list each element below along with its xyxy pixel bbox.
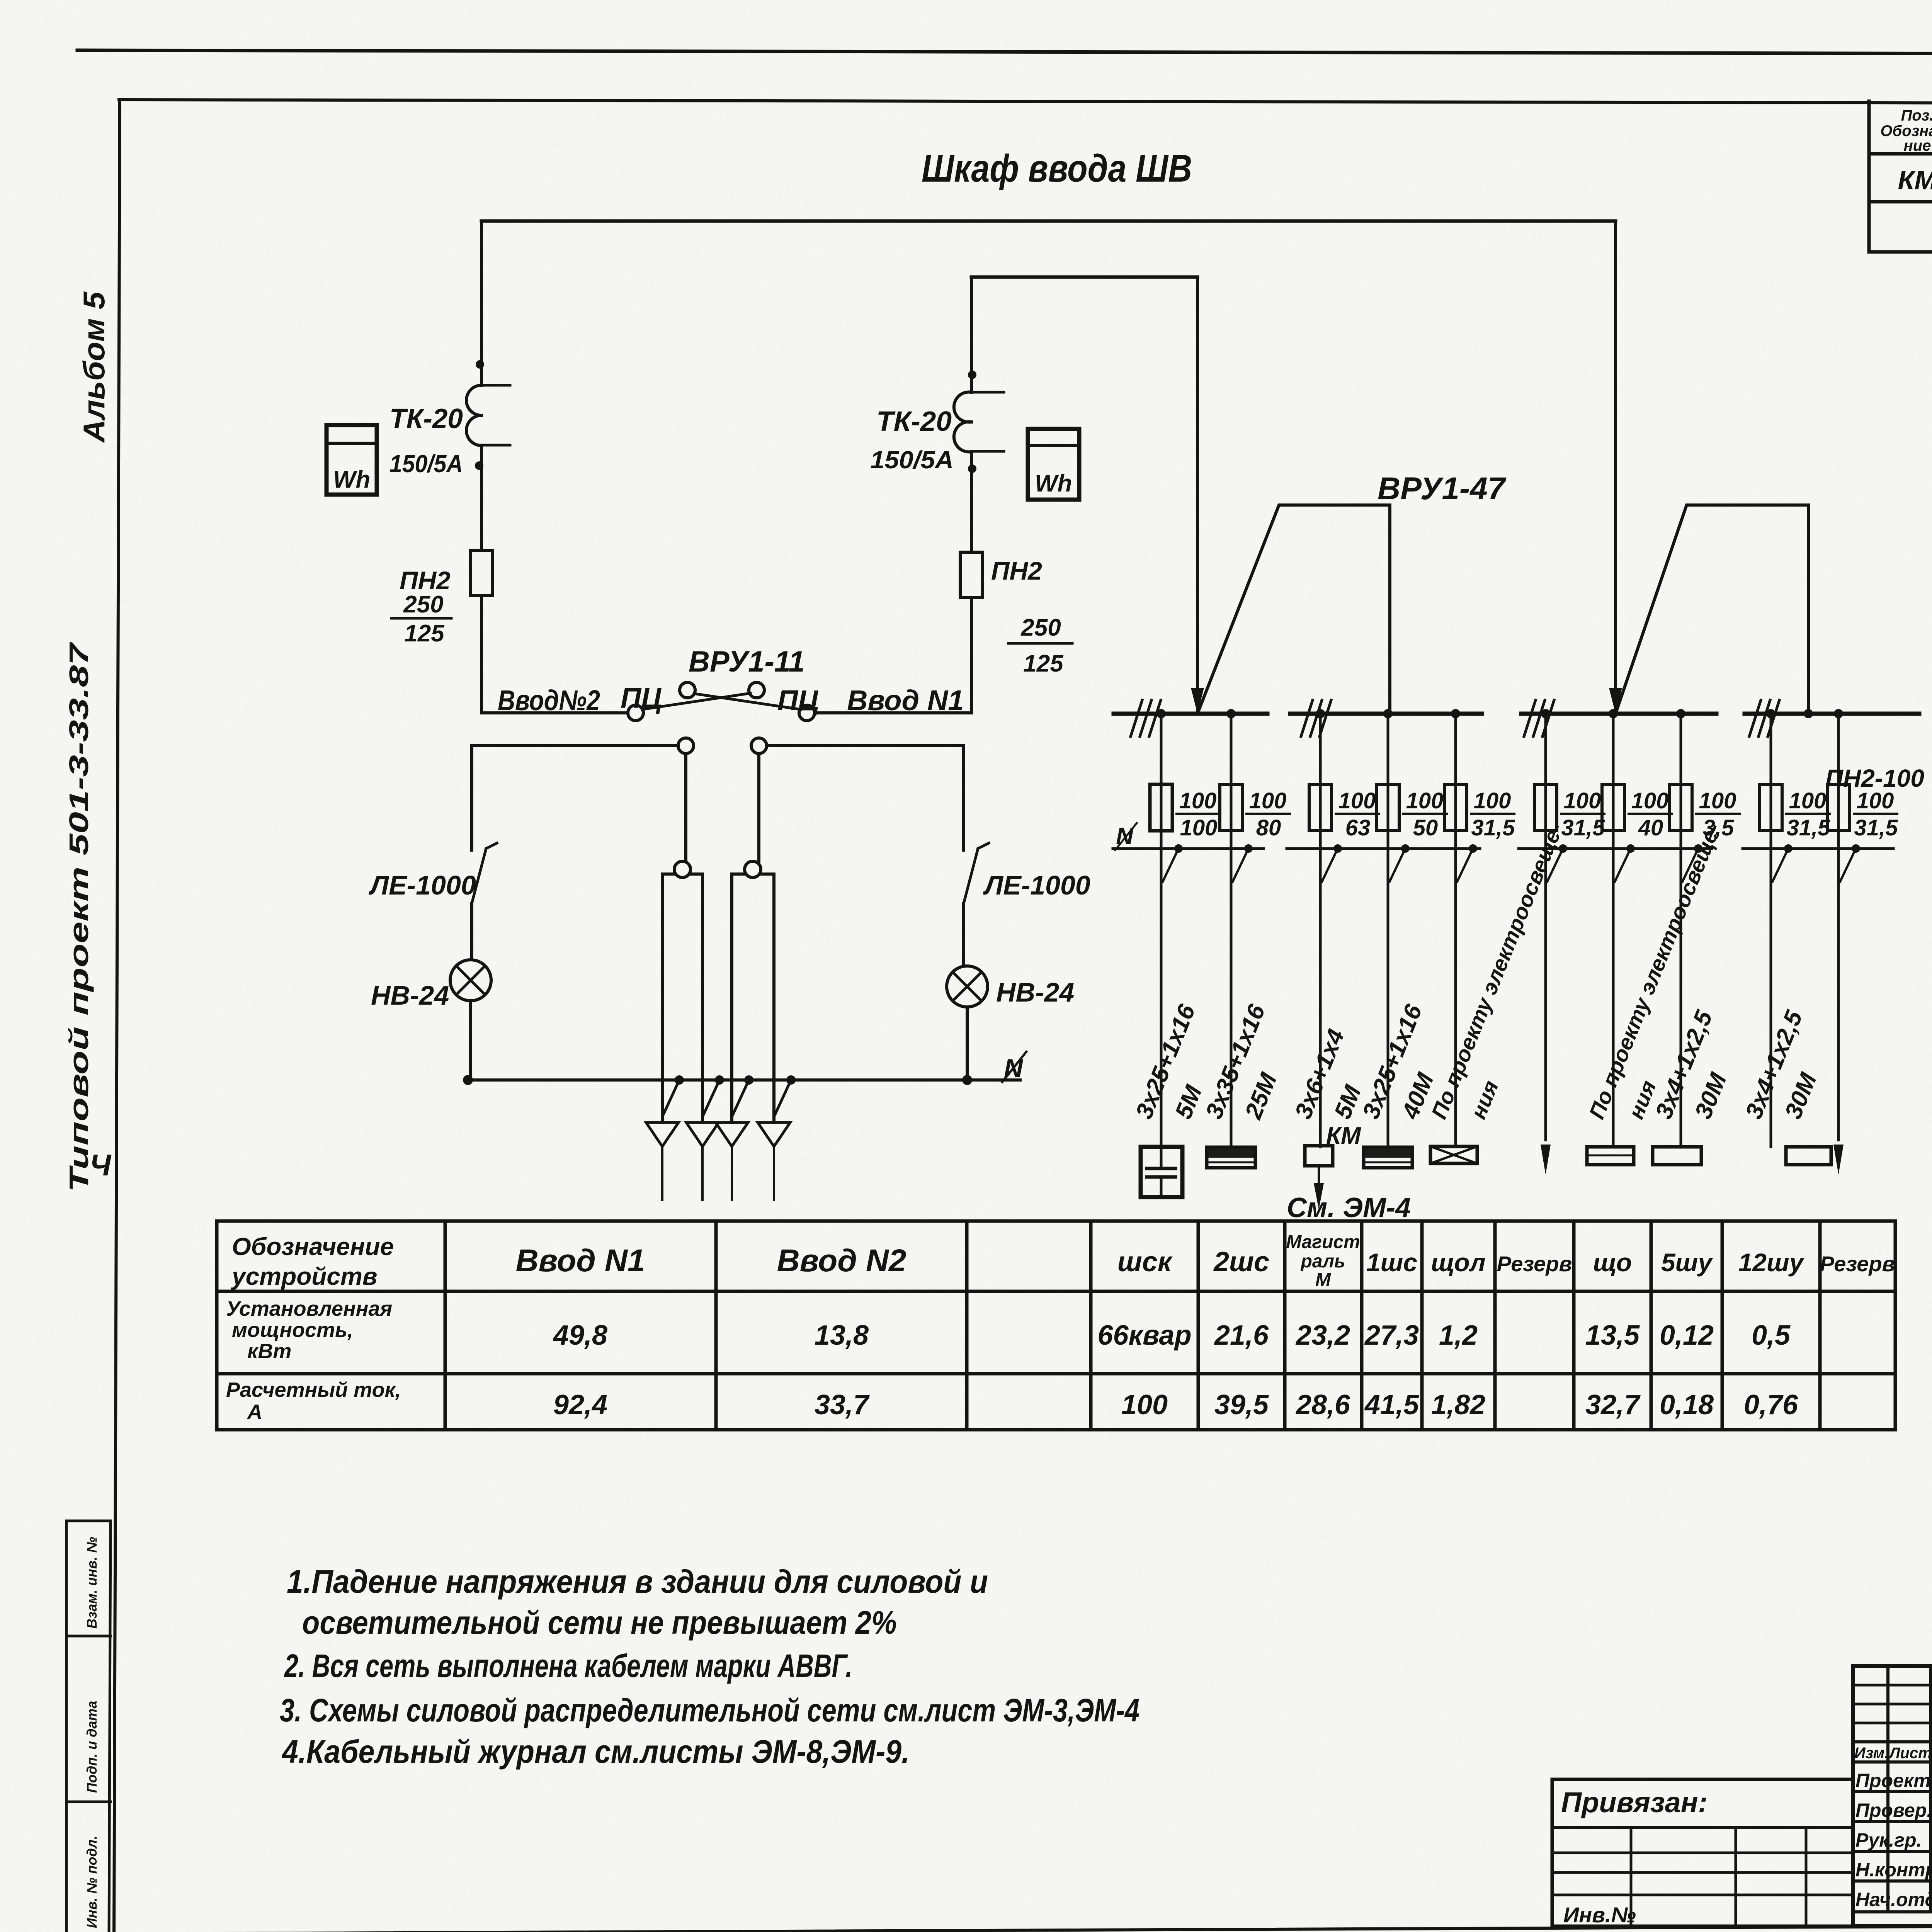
svg-text:Типовой проект 501-3-33.87: Типовой проект 501-3-33.87 bbox=[64, 642, 94, 1192]
svg-text:Альбом 5: Альбом 5 bbox=[77, 291, 111, 443]
svg-text:ВРУ1-11: ВРУ1-11 bbox=[689, 645, 805, 678]
svg-text:27,3: 27,3 bbox=[1364, 1320, 1419, 1351]
svg-text:Провер.: Провер. bbox=[1855, 1799, 1932, 1821]
svg-text:31,5: 31,5 bbox=[1561, 815, 1605, 840]
svg-text:ТК-20: ТК-20 bbox=[389, 403, 463, 434]
svg-text:31,5: 31,5 bbox=[1471, 815, 1515, 840]
svg-text:Привязан:: Привязан: bbox=[1561, 1786, 1708, 1818]
svg-text:Wh: Wh bbox=[333, 466, 370, 493]
svg-text:НВ-24: НВ-24 bbox=[371, 980, 449, 1010]
svg-text:39,5: 39,5 bbox=[1214, 1389, 1269, 1420]
svg-text:ВРУ1-47: ВРУ1-47 bbox=[1378, 471, 1507, 506]
svg-text:100: 100 bbox=[1338, 788, 1376, 813]
svg-text:125: 125 bbox=[404, 620, 445, 647]
svg-text:А: А bbox=[247, 1400, 262, 1423]
svg-text:що: що bbox=[1593, 1248, 1632, 1277]
svg-text:кВт: кВт bbox=[247, 1340, 291, 1363]
svg-text:2. Вся сеть выполнена кабелем: 2. Вся сеть выполнена кабелем марки АВВГ… bbox=[284, 1648, 852, 1684]
svg-text:31,5: 31,5 bbox=[1854, 815, 1898, 840]
svg-text:Резерв: Резерв bbox=[1497, 1252, 1572, 1276]
svg-text:100: 100 bbox=[1699, 788, 1736, 813]
svg-text:100: 100 bbox=[1249, 788, 1287, 813]
svg-text:21,6: 21,6 bbox=[1214, 1320, 1269, 1351]
svg-text:Расчетный ток,: Расчетный ток, bbox=[226, 1378, 401, 1401]
svg-text:5шу: 5шу bbox=[1661, 1248, 1713, 1277]
svg-text:250: 250 bbox=[403, 591, 443, 618]
svg-text:Wh: Wh bbox=[1035, 470, 1072, 497]
svg-text:31,5: 31,5 bbox=[1787, 815, 1831, 840]
svg-text:0,12: 0,12 bbox=[1660, 1320, 1714, 1351]
svg-text:ТК-20: ТК-20 bbox=[876, 406, 952, 437]
svg-text:Рук.гр.: Рук.гр. bbox=[1855, 1829, 1922, 1851]
svg-text:Ввод N2: Ввод N2 bbox=[777, 1243, 906, 1278]
svg-text:100: 100 bbox=[1121, 1389, 1168, 1420]
svg-text:4.Кабельный журнал см.листы Э: 4.Кабельный журнал см.листы ЭМ-8,ЭМ-9. bbox=[281, 1733, 910, 1770]
svg-text:33,7: 33,7 bbox=[815, 1389, 870, 1420]
svg-text:0,5: 0,5 bbox=[1752, 1320, 1791, 1351]
svg-text:Инв. № подл.: Инв. № подл. bbox=[84, 1836, 100, 1928]
svg-text:150/5А: 150/5А bbox=[870, 446, 954, 474]
svg-text:13,5: 13,5 bbox=[1585, 1320, 1640, 1351]
svg-text:100: 100 bbox=[1179, 788, 1217, 813]
svg-text:100: 100 bbox=[1474, 788, 1511, 813]
svg-text:3. Схемы силовой распределител: 3. Схемы силовой распределительной сети … bbox=[280, 1692, 1139, 1728]
svg-text:100: 100 bbox=[1406, 788, 1444, 813]
svg-text:Н.контр.: Н.контр. bbox=[1855, 1859, 1932, 1881]
svg-text:щол: щол bbox=[1431, 1248, 1485, 1277]
svg-text:Поз.: Поз. bbox=[1901, 107, 1932, 124]
svg-text:ЛЕ-1000: ЛЕ-1000 bbox=[983, 870, 1090, 900]
svg-text:100: 100 bbox=[1631, 788, 1669, 813]
svg-text:66квар: 66квар bbox=[1097, 1320, 1191, 1351]
svg-text:Проект.: Проект. bbox=[1855, 1770, 1932, 1791]
svg-text:49,8: 49,8 bbox=[553, 1320, 607, 1351]
svg-text:КМ: КМ bbox=[1898, 165, 1932, 195]
svg-text:шск: шск bbox=[1117, 1247, 1173, 1277]
svg-text:100: 100 bbox=[1180, 815, 1218, 840]
svg-text:Инв.№: Инв.№ bbox=[1563, 1903, 1636, 1927]
svg-text:50: 50 bbox=[1413, 815, 1438, 840]
svg-text:32,7: 32,7 bbox=[1585, 1389, 1641, 1420]
svg-text:0,18: 0,18 bbox=[1660, 1389, 1714, 1420]
svg-text:Резерв: Резерв bbox=[1820, 1252, 1895, 1276]
svg-text:ние: ние bbox=[1904, 137, 1931, 154]
svg-text:ПН2: ПН2 bbox=[991, 556, 1042, 585]
svg-text:92,4: 92,4 bbox=[553, 1389, 607, 1420]
svg-text:125: 125 bbox=[1023, 650, 1064, 677]
svg-text:250: 250 bbox=[1020, 614, 1061, 641]
svg-text:осветительной сети не превышае: осветительной сети не превышает 2% bbox=[302, 1604, 897, 1641]
svg-text:12шу: 12шу bbox=[1738, 1248, 1805, 1277]
svg-text:13,8: 13,8 bbox=[815, 1320, 869, 1351]
svg-text:Магист: Магист bbox=[1286, 1232, 1360, 1252]
svg-text:Взам. инв. №: Взам. инв. № bbox=[84, 1537, 100, 1629]
svg-text:Лист: Лист bbox=[1888, 1745, 1932, 1762]
svg-text:100: 100 bbox=[1564, 788, 1601, 813]
svg-text:Установленная: Установленная bbox=[226, 1297, 392, 1320]
svg-text:40: 40 bbox=[1638, 815, 1663, 840]
svg-text:1,82: 1,82 bbox=[1431, 1389, 1485, 1420]
svg-text:Обозначение: Обозначение bbox=[232, 1233, 394, 1260]
svg-text:КМ: КМ bbox=[1326, 1122, 1361, 1149]
svg-text:Нач.отд.: Нач.отд. bbox=[1855, 1889, 1932, 1910]
svg-text:раль: раль bbox=[1300, 1251, 1345, 1272]
svg-text:23,2: 23,2 bbox=[1295, 1320, 1350, 1351]
svg-text:150/5А: 150/5А bbox=[389, 450, 463, 478]
svg-text:Ввод N1: Ввод N1 bbox=[515, 1243, 645, 1278]
svg-text:80: 80 bbox=[1256, 815, 1281, 840]
svg-text:Ч: Ч bbox=[90, 1148, 112, 1182]
svg-text:2шс: 2шс bbox=[1213, 1247, 1269, 1277]
svg-text:1,2: 1,2 bbox=[1439, 1320, 1478, 1351]
svg-text:устройств: устройств bbox=[231, 1262, 378, 1290]
svg-text:Шкаф ввода ШВ: Шкаф ввода ШВ bbox=[922, 147, 1192, 190]
svg-text:1шс: 1шс bbox=[1366, 1248, 1417, 1277]
svg-text:ПН2: ПН2 bbox=[400, 566, 451, 595]
svg-text:28,6: 28,6 bbox=[1295, 1389, 1350, 1420]
svg-text:М: М bbox=[1315, 1270, 1331, 1290]
svg-text:НВ-24: НВ-24 bbox=[996, 977, 1074, 1007]
svg-text:Изм.: Изм. bbox=[1854, 1745, 1889, 1762]
svg-text:мощность,: мощность, bbox=[232, 1318, 353, 1342]
svg-text:ЛЕ-1000: ЛЕ-1000 bbox=[368, 870, 476, 900]
svg-text:1.Падение напряжения в здании: 1.Падение напряжения в здании для силово… bbox=[287, 1563, 988, 1600]
svg-text:0,76: 0,76 bbox=[1744, 1389, 1798, 1420]
svg-text:Подп. и дата: Подп. и дата bbox=[84, 1701, 100, 1793]
svg-text:100: 100 bbox=[1789, 788, 1827, 813]
svg-text:ПН2-100: ПН2-100 bbox=[1825, 764, 1924, 792]
svg-text:63: 63 bbox=[1345, 815, 1371, 840]
svg-text:См. ЭМ-4: См. ЭМ-4 bbox=[1287, 1192, 1411, 1223]
svg-text:41,5: 41,5 bbox=[1364, 1389, 1419, 1420]
